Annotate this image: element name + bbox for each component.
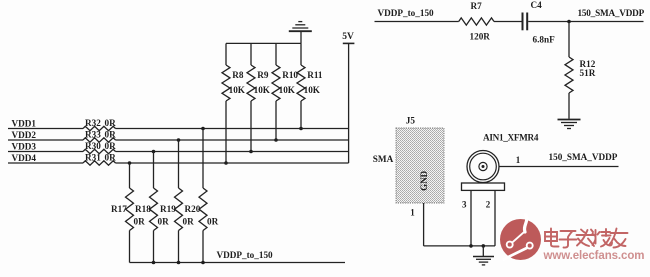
svg-text:150_SMA_VDDP: 150_SMA_VDDP [578,8,645,18]
svg-text:R30: R30 [85,141,101,151]
power symbol 5V [342,32,354,163]
svg-text:R31: R31 [85,153,101,163]
svg-text:2: 2 [486,200,491,210]
resistor R12 51R [565,22,596,119]
wire VDD1 left segment [8,128,83,130]
svg-text:51R: 51R [580,68,596,78]
svg-text:VDD2: VDD2 [12,130,37,140]
junction: C4 output node to R12 [567,20,571,24]
resistor R30 0R (series on VDD3) [83,141,116,154]
wire R7 to C4 [494,21,522,23]
svg-text:R10: R10 [282,70,298,80]
wire VDD3 right segment to 5V rail [116,151,349,153]
svg-text:www.elecfans.com: www.elecfans.com [543,250,645,262]
svg-text:0R: 0R [105,118,117,128]
svg-text:0R: 0R [207,217,219,227]
junction: R11 to VDD line [299,127,303,131]
coax body: concentric circles [467,151,499,183]
pin 2 lead [494,190,496,246]
resistor R19 0R (pull-down to VDDP_to_150) [160,140,194,263]
svg-text:R7: R7 [471,1,483,11]
svg-text:150_SMA_VDDP: 150_SMA_VDDP [549,152,618,162]
svg-text:R33: R33 [85,130,101,140]
svg-text:VDD4: VDD4 [12,153,37,163]
coax base bar [462,183,505,190]
svg-text:R17: R17 [111,204,127,214]
ground symbol under R12 [558,119,581,121]
svg-text:C4: C4 [531,0,543,10]
ground symbol top (inverted earth ground above pull-up rail) [289,22,312,44]
svg-text:R8: R8 [232,70,244,80]
capacitor C4 6.8nF [523,0,556,44]
junction: R18 to bottom rail [152,261,156,265]
svg-text:0R: 0R [105,153,117,163]
svg-text:120R: 120R [470,32,491,42]
resistor R11 10K (pull-up) [297,43,323,128]
svg-text:R18: R18 [135,204,151,214]
svg-text:10K: 10K [229,85,246,95]
svg-text:0R: 0R [158,217,170,227]
junction: R9 to VDD line [249,150,253,154]
ground symbol below transformer [473,246,494,265]
svg-text:1: 1 [516,155,521,165]
junction: VDD4 to pull-down drop at x=129.5 [128,161,132,165]
svg-text:10K: 10K [254,85,271,95]
resistor R17 0R (pull-down to VDDP_to_150) [111,163,145,263]
wire: top rail connecting R8-R11 tops [226,42,301,44]
pin 1 wire to 150_SMA_VDDP [499,166,619,168]
svg-text:R11: R11 [307,70,323,80]
svg-text:6.8nF: 6.8nF [533,34,556,44]
wire from VDDP_to_150 to R7 [375,21,459,23]
junction: pin3 to ground wire [469,244,473,248]
resistor R31 0R (series on VDD4) [83,153,116,166]
resistor R32 0R (series on VDD1) [83,118,116,131]
svg-text:1: 1 [410,208,415,218]
resistor R10 10K (pull-up) [272,43,298,140]
wire C4 to 150_SMA_VDDP [528,21,643,23]
wire VDD4 right segment to 5V rail [116,162,349,164]
svg-text:R20: R20 [185,204,201,214]
junction: VDD3 to pull-down drop at x=153.5 [152,150,156,154]
junction: ground stem [482,244,486,248]
svg-text:R32: R32 [85,118,101,128]
svg-text:J5: J5 [406,116,416,126]
resistor R7 120R [459,1,494,42]
svg-text:3: 3 [462,200,467,210]
junction: R20 to bottom rail [201,261,205,265]
svg-text:10K: 10K [279,85,296,95]
svg-text:VDD3: VDD3 [12,142,37,152]
wire J5 pin1 down [423,203,425,246]
svg-text:0R: 0R [183,217,195,227]
wire VDD3 left segment [8,151,83,153]
resistor R20 0R (pull-down to VDDP_to_150) [185,129,219,263]
svg-text:0R: 0R [105,141,117,151]
wire VDD2 right segment to 5V rail [116,139,349,141]
junction: VDD1 to pull-down drop at x=203 [201,127,205,131]
svg-text:10K: 10K [304,85,321,95]
junction: R19 to bottom rail [177,261,181,265]
resistor R18 0R (pull-down to VDDP_to_150) [135,152,169,263]
svg-text:R19: R19 [160,204,176,214]
svg-text:VDDP_to_150: VDDP_to_150 [378,8,435,18]
watermark logo circle (elecfans) [500,215,541,261]
svg-text:AIN1_XFMR4: AIN1_XFMR4 [483,133,539,143]
wire VDD2 left segment [8,139,83,141]
resistor R8 10K (pull-up) [222,43,246,163]
svg-text:VDDP_to_150: VDDP_to_150 [217,250,274,260]
svg-text:5V: 5V [342,32,354,42]
pin 3 lead [470,190,472,246]
wire VDD4 left segment [8,162,83,164]
wire J5 to transformer pin 3 / ground [424,245,495,247]
svg-text:0R: 0R [105,130,117,140]
wire VDD1 right segment to 5V rail [116,128,349,130]
wire: bottom rail VDDP_to_150 [130,262,346,264]
resistor R33 0R (series on VDD2) [83,130,116,143]
svg-text:0R: 0R [134,217,146,227]
svg-text:VDD1: VDD1 [12,119,37,129]
junction: VDD2 to pull-down drop at x=178.5 [177,138,181,142]
svg-text:SMA: SMA [373,154,394,164]
junction: R8 to VDD line [224,161,228,165]
junction: R10 to VDD line [274,138,278,142]
connector J5 SMA (hatched body) [373,116,444,204]
resistor R9 10K (pull-up) [247,43,271,151]
svg-text:R9: R9 [257,70,269,80]
svg-text:GND: GND [419,170,429,191]
watermark text 电子发烧友 (drawn strokes) [545,229,628,248]
